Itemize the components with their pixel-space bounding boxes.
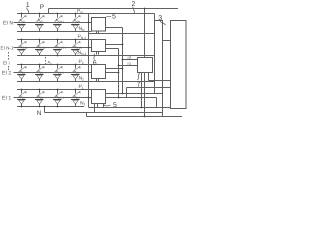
svg-text:A2M-1: A2M-1	[55, 69, 64, 75]
svg-text:5: 5	[112, 14, 116, 21]
svg-text:NN-1: NN-1	[78, 50, 87, 56]
svg-text:EI i: EI i	[3, 61, 10, 66]
wire N common step	[44, 107, 46, 113]
wire box C outputs	[106, 68, 123, 70]
svg-text:N1: N1	[80, 101, 86, 107]
svg-text:P: P	[40, 4, 44, 11]
ellipsis rows dots	[7, 52, 10, 70]
EL element A22	[35, 64, 45, 82]
svg-text:AN-1M: AN-1M	[73, 44, 82, 50]
box switch row N (5)	[92, 18, 106, 32]
wire x156 down	[156, 98, 158, 108]
wire box B outputs	[106, 44, 123, 46]
svg-text:P2: P2	[79, 59, 84, 65]
svg-text:PN-1: PN-1	[78, 34, 87, 40]
svg-text:EI 2: EI 2	[2, 71, 11, 77]
EL element A1M-1	[53, 89, 64, 108]
wire N_N-1 bus	[17, 55, 155, 57]
wire ladder y87	[127, 87, 171, 89]
wire EI N row	[14, 22, 92, 24]
EL element A11	[17, 89, 27, 108]
ellipsis grid dots and A_ij	[44, 57, 47, 65]
EL element AN1	[17, 13, 27, 32]
wire box D outputs	[106, 93, 164, 95]
svg-text:AN-11: AN-11	[19, 44, 28, 50]
wire EI 2 row	[14, 72, 92, 74]
svg-text:1: 1	[26, 2, 30, 9]
svg-text:A22: A22	[37, 69, 43, 75]
EL element AN-12	[35, 39, 46, 56]
wire P bus to box7 top	[144, 9, 146, 58]
node P common bus	[49, 8, 179, 10]
box feet	[96, 31, 98, 34]
wire P_N-1 bus	[17, 39, 92, 41]
box switch row 2	[92, 65, 106, 79]
svg-text:A12: A12	[37, 94, 43, 100]
svg-text:N2: N2	[79, 76, 85, 82]
svg-text:N: N	[37, 110, 42, 117]
wire N_2 bus	[17, 81, 155, 83]
svg-text:P1: P1	[79, 84, 84, 90]
svg-text:5: 5	[113, 102, 117, 109]
svg-text:6: 6	[93, 60, 97, 67]
EL element A1M	[71, 89, 81, 107]
svg-text:EI N: EI N	[3, 21, 13, 27]
svg-text:A1M: A1M	[73, 94, 79, 100]
svg-text:AN-1M-1: AN-1M-1	[55, 44, 67, 50]
svg-text:A1M-1: A1M-1	[55, 94, 64, 100]
svg-text:EI 1: EI 1	[2, 96, 11, 102]
EL element AN2	[35, 13, 45, 32]
svg-text:EI N-1: EI N-1	[1, 46, 14, 51]
wire P_N bus	[17, 13, 155, 15]
svg-text:A21: A21	[19, 69, 25, 75]
EL element A12	[35, 89, 45, 108]
wire feed to rect1 top	[154, 14, 156, 21]
wire rect1 right edge down	[162, 94, 164, 117]
EL element ANM-1	[53, 13, 65, 32]
wire box D bottom pin	[94, 104, 96, 113]
wire right vertical bus V1	[88, 14, 90, 108]
box switch row N-1 (6)	[92, 40, 106, 52]
svg-text:A2M: A2M	[73, 69, 79, 75]
wire N_1 bus	[17, 106, 84, 108]
box switch row 1 (5)	[92, 90, 106, 104]
box 7 supply	[138, 58, 153, 73]
wire EI 1 row	[14, 97, 92, 99]
svg-text:2: 2	[132, 1, 136, 8]
EL element AN-11	[17, 39, 28, 56]
wire r1	[119, 65, 138, 67]
EL element A21	[17, 64, 27, 82]
EL element A2M-1	[53, 64, 64, 82]
box column driver 3b	[171, 21, 187, 109]
wire box7 bottom pin 2 to lowest line	[144, 73, 146, 117]
wire box7 bottom pin to N line	[141, 73, 143, 108]
EL element A2M	[71, 64, 81, 82]
wire P_1 bus	[17, 89, 92, 91]
wire P_2 bus	[17, 64, 92, 66]
wire EI N-1 row	[14, 47, 92, 49]
EL element ANM	[71, 13, 81, 32]
svg-text:NN: NN	[79, 26, 86, 32]
wire r2	[123, 59, 138, 61]
wire rect connector	[163, 40, 171, 42]
wire box7 bottom pin right to rect2	[148, 73, 150, 81]
EL element AN-1M-1	[53, 39, 67, 56]
junction dots	[88, 22, 90, 24]
wire lowest bus	[86, 113, 88, 117]
EL element AN-1M	[71, 39, 82, 56]
svg-text:r1: r1	[128, 61, 132, 66]
box column driver 3a	[155, 21, 163, 94]
wire N_N bus	[17, 31, 92, 33]
svg-text:AN-12: AN-12	[37, 44, 46, 50]
wire box A output to bus x122	[106, 27, 123, 29]
svg-text:PN: PN	[77, 9, 83, 15]
